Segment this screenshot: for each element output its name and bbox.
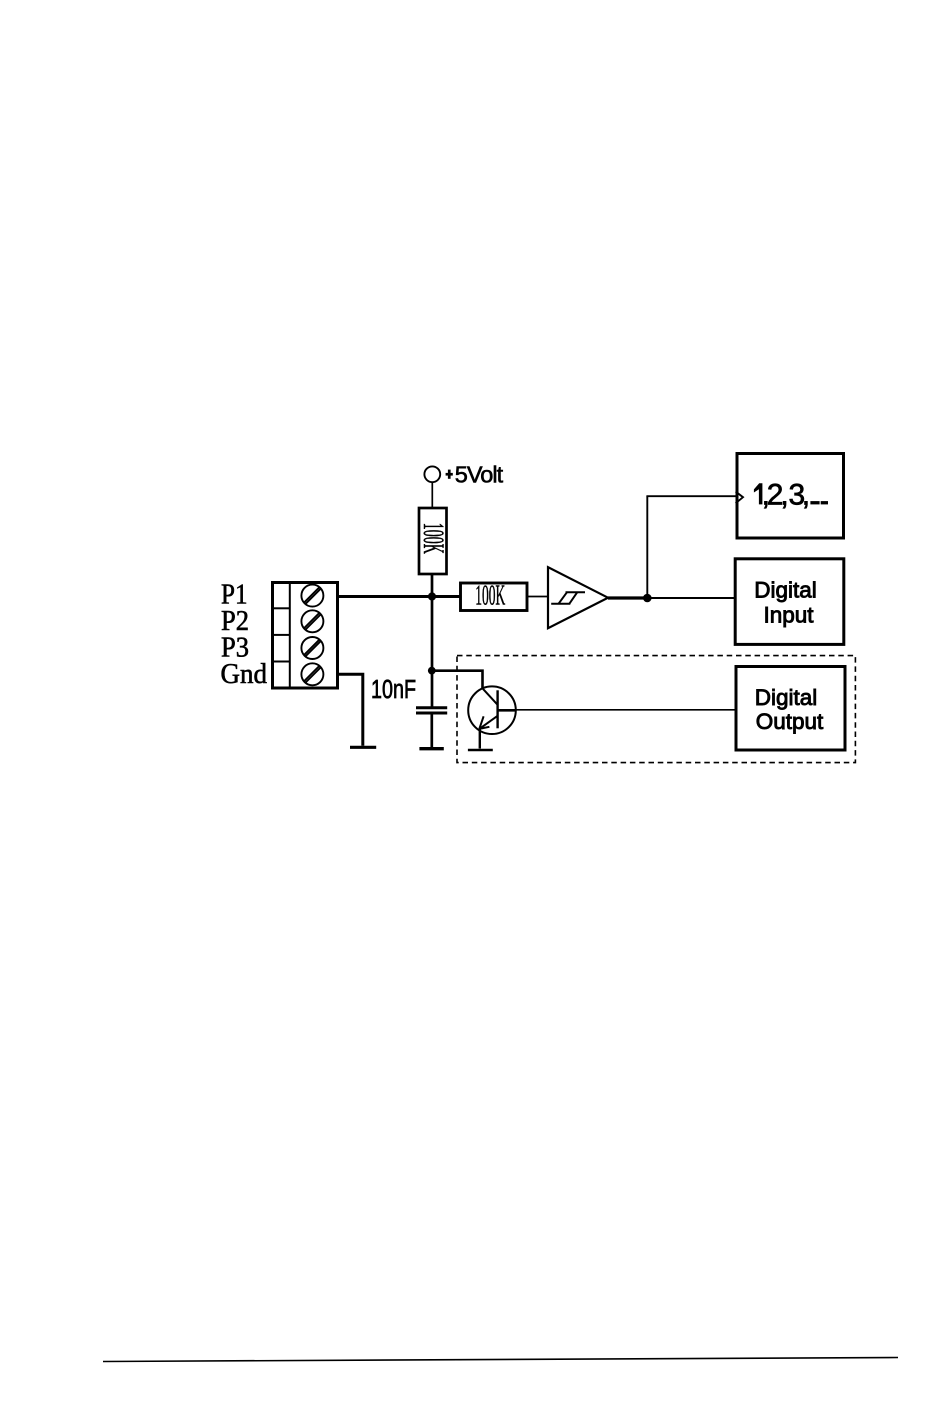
resistor R2 100K horizontal [461, 583, 528, 611]
hysteresis symbol [551, 592, 585, 604]
arrowhead into counter box [736, 492, 743, 504]
wire node B up [646, 496, 648, 598]
svg-text:5Volt: 5Volt [455, 462, 504, 488]
counter box 1,2,3 [737, 454, 844, 539]
svg-text:10nF: 10nF [371, 676, 416, 704]
resistor R1 100K vertical [419, 508, 447, 574]
wire node C to Q1 base [432, 671, 483, 689]
terminal block J1 outer body [273, 583, 338, 689]
svg-text:100K: 100K [475, 581, 505, 612]
svg-text:Input: Input [763, 603, 814, 628]
svg-text:Output: Output [756, 709, 824, 734]
node B [643, 594, 652, 603]
wire node B to Digital Input [648, 597, 736, 599]
transistor Q1 body [468, 686, 516, 734]
label 1,2,3,-- [754, 483, 763, 504]
svg-text:,: , [802, 479, 810, 512]
terminal screw 4 [301, 663, 323, 685]
node A [428, 592, 436, 600]
svg-text:100K: 100K [417, 523, 449, 554]
wire R2 to schmitt U1 [527, 596, 549, 598]
capacitor C1 plates [416, 706, 447, 709]
+5Volt terminal circle [424, 466, 440, 482]
Q1 collector lead [498, 709, 516, 712]
svg-text:,: , [780, 479, 788, 512]
wire U1 output to node B [608, 596, 648, 599]
label +5Volt [446, 470, 453, 479]
wire Gnd terminal to ground [338, 674, 363, 745]
Q1 emitter lead [479, 729, 481, 749]
svg-text:Digital: Digital [754, 577, 817, 602]
Q1 base lead diagonal [482, 688, 498, 705]
node C [428, 667, 436, 675]
schmitt trigger U1 [548, 567, 608, 628]
wire C1 to ground [430, 715, 433, 748]
ground under Gnd terminal [350, 746, 376, 749]
Q1 base bar [496, 690, 498, 728]
wire R1 bottom through node A down to capacitor [431, 574, 434, 707]
Q1 emitter arrowhead [479, 716, 483, 729]
svg-text:Gnd: Gnd [221, 659, 268, 690]
footer rule [103, 1358, 898, 1362]
terminal screw 1 [301, 585, 323, 607]
terminal screw 2 [301, 610, 323, 632]
wire to counter box [646, 495, 736, 497]
wire P1 to node A [338, 595, 461, 598]
ground under C1 [419, 747, 443, 750]
ground under Q1 [468, 749, 493, 752]
wire +5V to R1 [431, 482, 433, 508]
Q1 emitter diagonal [479, 716, 497, 729]
wire Q1 collector to Digital Output [516, 709, 735, 711]
box Digital Output [736, 667, 845, 751]
svg-text:Digital: Digital [755, 685, 818, 710]
box Digital Input [735, 559, 844, 645]
dashed box [457, 656, 855, 763]
terminal screw 3 [301, 637, 323, 659]
